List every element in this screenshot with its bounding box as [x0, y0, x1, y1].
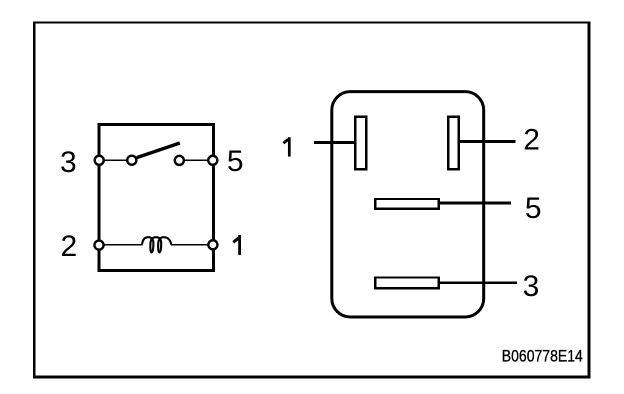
terminal node 1: [208, 240, 217, 249]
svg-text:2: 2: [60, 230, 77, 263]
switch fixed contact: [175, 156, 184, 165]
wire switch to node5: [179, 159, 213, 161]
connector label pin 1: [283, 137, 289, 156]
svg-text:3: 3: [60, 146, 77, 179]
svg-text:3: 3: [523, 270, 540, 303]
pin 3 slot: [375, 278, 438, 289]
pin 5 slot: [375, 199, 438, 209]
pin 1 slot: [355, 117, 366, 170]
label pin 1: [233, 235, 239, 255]
wire node2 to coil: [99, 244, 143, 246]
terminal node 3: [95, 156, 104, 165]
frame bottom: [33, 376, 590, 379]
svg-text:5: 5: [227, 145, 244, 178]
switch contact arm: [137, 143, 180, 158]
lead line pin 1: [314, 141, 356, 144]
connector outline: [332, 92, 484, 317]
lead line pin 2: [458, 140, 515, 143]
terminal node 2: [94, 241, 103, 250]
relay K1 body: [99, 124, 213, 270]
svg-text:5: 5: [525, 192, 542, 225]
switch pivot contact: [127, 156, 136, 165]
frame right: [588, 22, 591, 379]
terminal node 5: [208, 156, 217, 165]
frame left: [33, 22, 35, 379]
pin 2 slot: [448, 117, 459, 170]
wire coil to node1: [171, 244, 213, 246]
lead line pin 5: [439, 201, 511, 204]
relay coil L1: [142, 237, 171, 252]
svg-text:2: 2: [523, 124, 540, 157]
lead line pin 3: [439, 281, 517, 284]
wire node3 to switch: [99, 159, 132, 161]
frame top: [33, 21, 590, 23]
svg-text:B060778E14: B060778E14: [502, 347, 583, 366]
